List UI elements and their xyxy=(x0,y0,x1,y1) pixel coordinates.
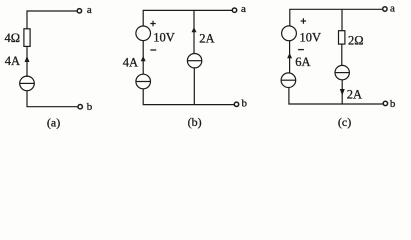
plus sign of 10V source (b) xyxy=(150,21,155,26)
current source middle branch (b) xyxy=(187,54,201,68)
svg-text:4A: 4A xyxy=(123,55,138,69)
svg-text:a: a xyxy=(241,3,246,15)
current arrow 4A (a) xyxy=(25,56,30,62)
current arrow 2A (c) xyxy=(340,89,345,96)
wire: (a) between resistor and current source xyxy=(26,47,28,77)
wire: (b) middle branch lower xyxy=(193,68,195,105)
svg-text:b: b xyxy=(390,98,396,110)
wire: (c) middle branch upper xyxy=(341,9,343,30)
voltage source 10V (c) xyxy=(282,26,297,41)
minus sign of 10V source (c) xyxy=(298,49,304,51)
svg-text:4Ω: 4Ω xyxy=(4,31,20,45)
svg-text:2A: 2A xyxy=(199,31,214,45)
node b terminal (a) xyxy=(78,105,82,109)
wire: (b) between sources xyxy=(142,41,144,75)
svg-text:b: b xyxy=(242,98,248,110)
wire: (c) between sources xyxy=(289,41,291,73)
node a terminal (a) xyxy=(77,9,81,13)
svg-text:4A: 4A xyxy=(5,54,20,68)
node b terminal (c) xyxy=(383,101,387,105)
svg-text:10V: 10V xyxy=(300,31,322,45)
wire: (c) top wire with left drop xyxy=(290,9,383,26)
svg-text:2Ω: 2Ω xyxy=(348,34,364,48)
resistor 2ohm (c) xyxy=(339,31,345,44)
wire: (c) middle branch between resistor and source xyxy=(341,44,343,65)
wire: (c) bottom wire xyxy=(289,88,383,105)
current source left branch (c) xyxy=(281,73,296,88)
current source (a) xyxy=(20,76,35,91)
current source middle branch (c) xyxy=(335,65,349,79)
minus sign of 10V source (b) xyxy=(150,49,156,51)
wire: (b) middle branch upper xyxy=(193,10,195,53)
plus sign of 10V source (c) xyxy=(301,18,306,23)
svg-text:b: b xyxy=(87,101,93,113)
node b terminal (b) xyxy=(234,102,238,106)
svg-text:6A: 6A xyxy=(295,55,310,69)
wire: (a) top wire and left drop xyxy=(27,11,77,29)
svg-text:10V: 10V xyxy=(153,31,175,45)
current arrow 4A (b) xyxy=(141,56,146,61)
voltage source 10V (b) xyxy=(136,26,151,41)
svg-text:(b): (b) xyxy=(188,115,202,129)
node a terminal (c) xyxy=(383,7,387,11)
wire: (a) bottom wire xyxy=(27,91,78,107)
svg-text:a: a xyxy=(87,4,92,16)
node a terminal (b) xyxy=(232,8,236,12)
current source left branch (b) xyxy=(136,74,151,89)
wire: (c) middle branch lower with downward current arrow xyxy=(341,80,343,104)
svg-text:(c): (c) xyxy=(338,115,351,129)
svg-text:2A: 2A xyxy=(347,87,362,101)
wire: (b) bottom wire xyxy=(143,89,234,105)
svg-text:a: a xyxy=(390,3,395,15)
wire: (b) top wire with left drop xyxy=(143,10,232,26)
current arrow 6A (c) xyxy=(287,53,292,58)
svg-text:(a): (a) xyxy=(47,115,60,129)
current arrow 2A (b) xyxy=(192,27,197,32)
resistor 4ohm (a) xyxy=(24,29,30,47)
